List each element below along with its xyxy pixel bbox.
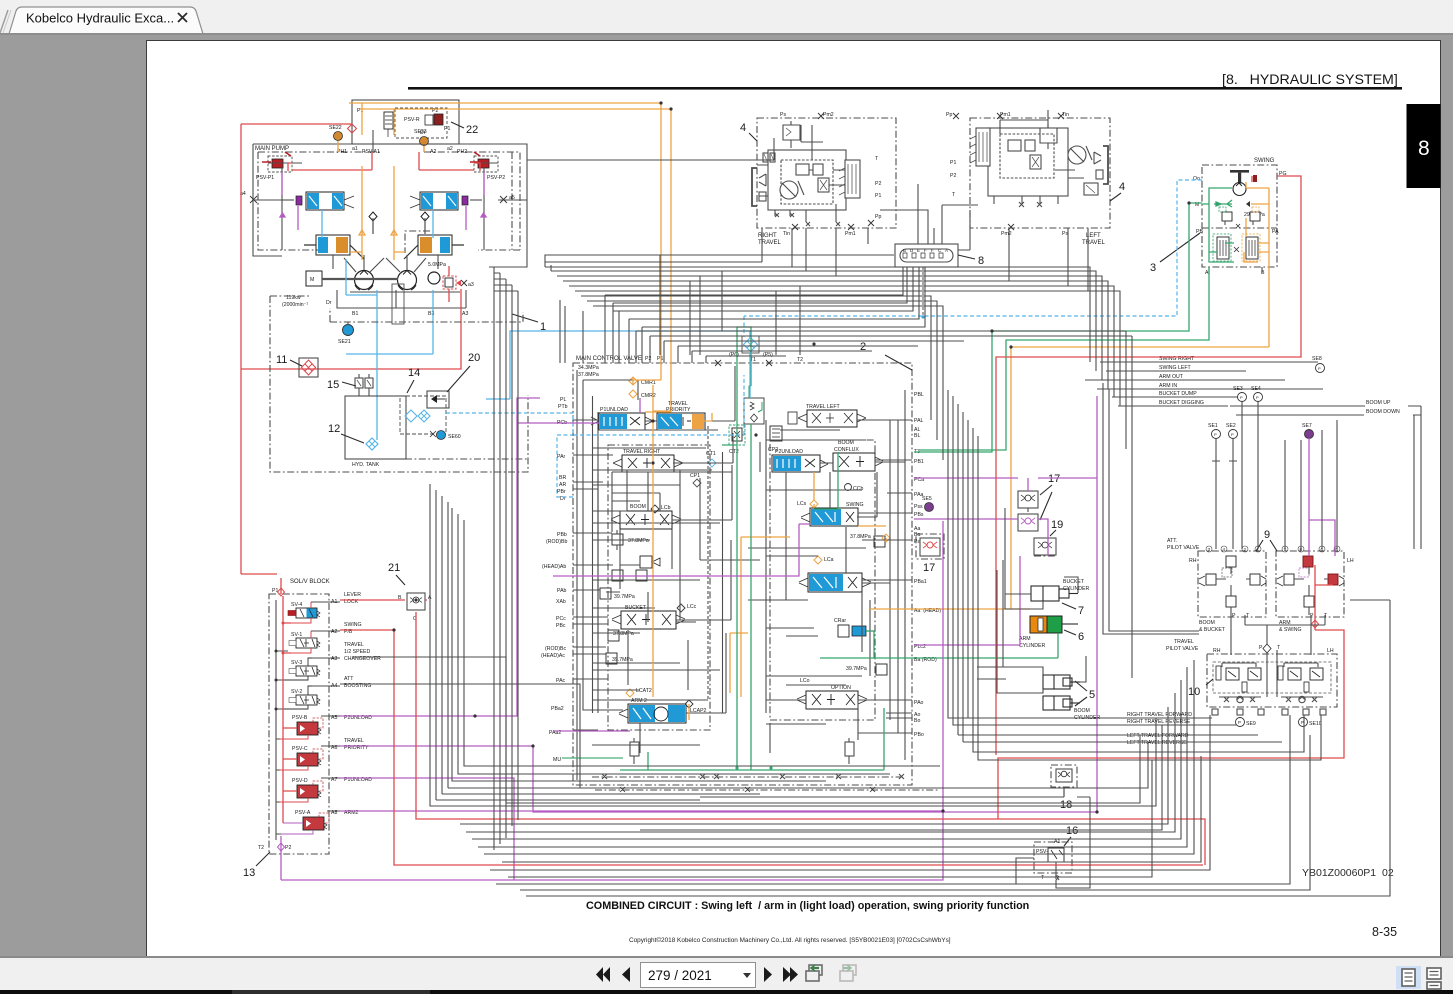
wire red att LH loop: [998, 565, 1344, 819]
svg-text:a2: a2: [447, 146, 453, 152]
svg-text:37.8MPa: 37.8MPa: [613, 631, 634, 637]
boom cylinders 5: [1043, 675, 1100, 721]
svg-text:MU: MU: [553, 757, 561, 763]
MCV outer box: [573, 356, 912, 785]
svg-text:BOOM: BOOM: [1199, 620, 1215, 626]
svg-text:P: P: [1256, 395, 1259, 400]
continuous view button: [1427, 968, 1441, 979]
chapter tab 8: [1407, 104, 1441, 188]
svg-text:18: 18: [1060, 799, 1072, 811]
svg-text:HYD. TANK: HYD. TANK: [352, 462, 380, 468]
svg-text:P2: P2: [285, 845, 291, 851]
wire orange pilot primary: [349, 103, 661, 381]
nav forward icon (disabled): [840, 965, 856, 981]
valve PSV-A: [281, 810, 329, 834]
svg-text:SWING: SWING: [344, 622, 362, 628]
svg-text:T2: T2: [797, 357, 803, 363]
svg-text:Pm2: Pm2: [1001, 231, 1012, 237]
spool SWING: [797, 500, 864, 526]
svg-text:AR: AR: [559, 482, 566, 488]
svg-text:SE23: SE23: [414, 129, 427, 135]
nav back icon: [806, 965, 822, 981]
relief 39.7MPa bucket: [606, 653, 633, 664]
svg-text:F: F: [924, 248, 927, 253]
red diamond P1 junction: [348, 124, 357, 133]
check valves pump center: [369, 212, 429, 234]
svg-text:PL: PL: [560, 397, 566, 403]
svg-text:LCc: LCc: [687, 604, 697, 610]
svg-text:21: 21: [388, 562, 400, 574]
svg-text:A3: A3: [462, 311, 468, 317]
svg-text:BOOM: BOOM: [1074, 708, 1090, 714]
wire gray left verticals to bottom: [430, 484, 820, 806]
svg-text:(2000min⁻¹: (2000min⁻¹: [282, 302, 308, 308]
signal label SWING RIGHT: [1100, 356, 1318, 362]
valve PSV-P2: [470, 152, 505, 181]
svg-text:P1UNLOAD: P1UNLOAD: [600, 407, 628, 413]
label 21: [388, 562, 405, 585]
svg-text:SE4: SE4: [1251, 386, 1261, 392]
svg-text:MAIN CONTROL VALVE: MAIN CONTROL VALVE: [576, 356, 642, 362]
svg-text:RIGHT TRAVEL FORWARD: RIGHT TRAVEL FORWARD: [1127, 712, 1192, 718]
svg-text:P: P: [1214, 432, 1217, 437]
svg-text:LEFT TRAVEL FORWARD: LEFT TRAVEL FORWARD: [1127, 733, 1189, 739]
nav prev button: [622, 967, 630, 982]
left travel internals: [970, 110, 1108, 207]
label 8: [958, 255, 984, 267]
svg-text:BL: BL: [914, 433, 920, 439]
sol/v block box: [248, 579, 330, 874]
svg-text:RIGHT: RIGHT: [758, 233, 777, 239]
travel pilot valve box 10: [1166, 639, 1337, 707]
swing internal green lines: [1202, 188, 1234, 262]
spool ARM2: [619, 688, 707, 723]
valve SV-3: [276, 658, 320, 680]
svg-text:RH: RH: [1189, 558, 1197, 564]
svg-text:(HEAD)Ac: (HEAD)Ac: [541, 653, 565, 659]
svg-text:a5: a5: [509, 195, 515, 201]
svg-text:PAL: PAL: [914, 418, 924, 424]
svg-text:34.3MPa: 34.3MPa: [578, 365, 599, 371]
wire gray density bundle extra top: [581, 296, 1132, 678]
wire black A3 travel changeover: [340, 657, 580, 803]
svg-text:PSV-D: PSV-D: [292, 778, 308, 784]
svg-text:PB1: PB1: [914, 459, 924, 465]
bottom toolbar: [0, 956, 1453, 958]
motor box M: [306, 271, 322, 286]
svg-text:PBo: PBo: [914, 732, 924, 738]
wire magenta PCa line: [914, 478, 1097, 491]
sensor SE5: [922, 496, 934, 512]
label 19: [1050, 519, 1063, 536]
sensor SE60: [430, 431, 461, 441]
regulator valve left (proportional): [282, 192, 354, 210]
drive shaft: [322, 278, 398, 280]
svg-text:LCo: LCo: [800, 678, 810, 684]
svg-text:11: 11: [276, 354, 287, 366]
travel PV check row: [1219, 696, 1323, 702]
pump circle 2: [398, 271, 417, 291]
wire gray links box8 to MCV top ports: [660, 255, 800, 355]
svg-text:5.0MPa: 5.0MPa: [428, 262, 446, 268]
pump bottom frame: [337, 284, 468, 324]
swing internal red stub: [1251, 176, 1253, 182]
svg-text:LCa: LCa: [824, 557, 834, 563]
svg-text:SE5: SE5: [922, 496, 932, 502]
MCV bottom dash-dot tank rail: [592, 776, 905, 778]
svg-text:[8. HYDRAULIC SYSTEM]: [8. HYDRAULIC SYSTEM]: [1222, 72, 1398, 88]
svg-text:13: 13: [243, 867, 255, 879]
spool BOOM: [611, 504, 681, 529]
right travel port labels: [780, 112, 881, 237]
MCV inner sub-boxes: [583, 380, 905, 760]
ATT PV circled numbers: [1206, 546, 1340, 552]
svg-text:COMBINED CIRCUIT : Swing left: COMBINED CIRCUIT : Swing left / arm in (…: [586, 900, 1029, 912]
swing makeup valves: [1213, 224, 1260, 261]
pump lower dash-dot frame: [330, 308, 523, 322]
svg-text:XAb: XAb: [556, 599, 566, 605]
sensor SE23: [414, 129, 429, 146]
svg-text:Pm1: Pm1: [845, 231, 856, 237]
svg-text:PBs: PBs: [914, 512, 924, 518]
wire orange pilot secondary: [360, 109, 671, 412]
bucket cylinder caption text: [1064, 573, 1065, 579]
svg-text:PB: PB: [1196, 229, 1203, 235]
wire magenta A6 TRAVEL PRIORITY: [340, 396, 1097, 812]
svg-text:SWING: SWING: [1254, 158, 1275, 164]
wire green arm rod line: [820, 631, 1058, 658]
svg-text:39.7MPa: 39.7MPa: [614, 594, 635, 600]
valve PSV-P1: [256, 152, 292, 181]
tab close button: [178, 13, 187, 22]
nav next button: [764, 967, 772, 982]
servo cylinder left: [304, 235, 364, 259]
MCV dense web right half: [748, 420, 898, 733]
sol/v internal rails: [275, 600, 289, 840]
svg-text:SE8: SE8: [1312, 356, 1322, 362]
label 15: [327, 379, 356, 391]
svg-text:PCc: PCc: [556, 616, 566, 622]
regulator valve right (proportional): [410, 192, 482, 210]
wire magenta A7 P1UNLOAD: [340, 778, 514, 880]
sensor SE10: [1299, 718, 1322, 728]
wire pump internals gray: [253, 130, 527, 272]
svg-text:YB01Z00060P1 02: YB01Z00060P1 02: [1302, 867, 1394, 879]
svg-text:22: 22: [466, 124, 478, 136]
relief 39.7MPa boom: [594, 588, 635, 602]
svg-text:LH: LH: [1327, 648, 1334, 654]
svg-text:TRAVEL: TRAVEL: [1082, 240, 1106, 246]
label 22: [451, 122, 478, 136]
label 13: [243, 852, 270, 879]
cyan pilot check CT2 CP2: [690, 425, 782, 487]
travel signal labels: [1127, 712, 1192, 746]
right travel internals: [752, 121, 860, 226]
svg-text:CYLINDER: CYLINDER: [1063, 586, 1089, 592]
signal label ARM OUT: [1085, 374, 1285, 380]
svg-text:ARM IN: ARM IN: [1159, 383, 1177, 389]
svg-text:P1: P1: [444, 126, 450, 132]
svg-text:P2UNLOAD: P2UNLOAD: [775, 449, 803, 455]
svg-text:39.7MPa: 39.7MPa: [612, 657, 633, 663]
svg-text:A8: A8: [331, 810, 337, 816]
svg-text:4: 4: [1223, 547, 1226, 552]
MCV top port labels: [645, 352, 803, 363]
wire magenta PSV-A tail: [281, 812, 943, 880]
svg-text:CCb: CCb: [853, 486, 863, 492]
taskbar strip: [0, 990, 1453, 994]
svg-text:Pss: Pss: [914, 504, 923, 510]
label 17 right pair: [1040, 473, 1060, 520]
signal label BUCKET DUMP: [1112, 391, 1242, 397]
svg-text:a1: a1: [352, 146, 358, 152]
svg-text:LCAT2: LCAT2: [636, 688, 652, 694]
svg-text:5: 5: [1089, 689, 1095, 701]
label 20: [447, 352, 480, 392]
wire magenta A5 P2UNLOAD: [340, 398, 599, 716]
wire gray dashed box8 drain: [922, 267, 924, 316]
svg-text:P: P: [1240, 395, 1243, 400]
svg-text:PAr: PAr: [557, 454, 566, 460]
svg-text:PAb: PAb: [557, 588, 567, 594]
svg-text:LEVER: LEVER: [344, 592, 361, 598]
svg-text:17: 17: [1048, 473, 1060, 485]
svg-text:P1: P1: [272, 588, 278, 594]
svg-text:TRAVEL: TRAVEL: [344, 642, 364, 648]
valve PSV-B: [280, 715, 323, 739]
port markers P6 P5: [715, 360, 772, 366]
ATT pilot valve box 9: [1167, 538, 1354, 633]
wire red swing PB A2: [340, 630, 1203, 865]
travel PV bottom ports: [1212, 709, 1326, 715]
svg-text:SE3: SE3: [1233, 386, 1243, 392]
svg-text:ARM OUT: ARM OUT: [1159, 374, 1184, 380]
label 14: [407, 367, 420, 393]
port labels A1-A8: [331, 599, 337, 816]
spool OPTION: [797, 678, 867, 709]
svg-text:RH: RH: [1213, 648, 1221, 654]
sol/v A-port lines: [311, 602, 340, 811]
ATT PV RH internals: [1199, 556, 1266, 615]
swing motor box: [1193, 158, 1287, 276]
svg-text:M: M: [310, 277, 314, 283]
hydraulic tank box 12: [345, 396, 406, 468]
check valve 20: [427, 391, 449, 408]
wire orange CMR drop: [633, 377, 671, 697]
left travel port markers: [953, 113, 1064, 230]
sensor SE9: [1236, 718, 1256, 728]
pump circle 1: [355, 271, 374, 291]
tank line filter diamond: [742, 336, 759, 353]
svg-text:P: P: [1318, 366, 1321, 371]
svg-text:8: 8: [1418, 137, 1430, 160]
wire red sol internal rail: [283, 596, 297, 823]
valve PSV-C: [280, 746, 323, 770]
svg-text:MAIN PUMP: MAIN PUMP: [255, 146, 289, 152]
gear pump circle: [428, 272, 440, 284]
svg-text:PSV-P1: PSV-P1: [256, 175, 274, 181]
svg-text:PSV-A: PSV-A: [295, 810, 311, 816]
right travel port markers: [792, 113, 874, 230]
svg-text:OPTION: OPTION: [831, 685, 851, 691]
CMR1 CMR2 orange check diamonds: [629, 377, 656, 399]
svg-text:SV-3: SV-3: [291, 660, 302, 666]
svg-text:T2: T2: [258, 845, 264, 851]
pilot pump box 22: [352, 100, 459, 144]
svg-text:a3: a3: [468, 282, 474, 288]
MCV main relief box: [744, 386, 764, 424]
wire gray nest verticals left of MCV: [560, 300, 583, 363]
svg-text:PH2: PH2: [457, 149, 467, 155]
svg-text:19: 19: [1051, 519, 1063, 531]
svg-text:TRAVEL LEFT: TRAVEL LEFT: [806, 404, 841, 410]
svg-text:SE7: SE7: [1302, 423, 1312, 429]
svg-text:PTb: PTb: [558, 404, 568, 410]
MCV internal gray connection web: [573, 366, 912, 733]
shuttle box 17b right (magenta): [1018, 514, 1038, 531]
wire gray mid verticals right of MCV: [948, 383, 1321, 760]
svg-text:SWING LEFT: SWING LEFT: [1159, 365, 1192, 371]
signal label BUCKET DIGGING: [1118, 400, 1228, 406]
svg-text:BUCKET DIGGING: BUCKET DIGGING: [1159, 400, 1204, 406]
relief arm rod 39.7: [846, 664, 887, 675]
valve SV-2: [276, 686, 320, 709]
svg-text:Tin: Tin: [783, 231, 790, 237]
svg-text:(ROD)Bb: (ROD)Bb: [546, 539, 567, 545]
svg-text:A1: A1: [331, 599, 337, 605]
svg-text:Pp: Pp: [946, 112, 952, 118]
spool P2UNLOAD: [772, 449, 828, 472]
MCV left port labels: [541, 397, 568, 763]
wire cyan solid T1 return: [486, 331, 750, 399]
spool TRAVEL RIGHT: [613, 449, 683, 472]
svg-text:B1: B1: [352, 311, 358, 317]
svg-text:CP1: CP1: [690, 473, 700, 479]
swing relief valves: [1219, 207, 1260, 225]
sensor SE3 SE4: [1233, 386, 1263, 420]
svg-text:SE9: SE9: [1246, 721, 1256, 727]
wire magenta PLc2 line: [914, 556, 1020, 645]
wire gray bundle pump right nest: [492, 138, 774, 850]
svg-text:A7: A7: [331, 777, 337, 783]
arm cylinder 6: [1019, 616, 1084, 649]
MCV left double border: [576, 370, 578, 780]
svg-text:PBb: PBb: [557, 532, 567, 538]
svg-text:PBL: PBL: [914, 392, 924, 398]
wire a4 a5 markers: [240, 191, 515, 203]
wire magenta A8 ARM2: [340, 521, 943, 811]
svg-text:Copyright©2018 Kobelco Constru: Copyright©2018 Kobelco Construction Mach…: [629, 936, 951, 944]
svg-text:BUCKET: BUCKET: [1063, 579, 1085, 585]
svg-text:P: P: [1259, 645, 1263, 651]
svg-text:SV-2: SV-2: [291, 689, 302, 695]
svg-text:P: P: [1232, 613, 1236, 619]
svg-text:BOOM DOWN: BOOM DOWN: [1366, 409, 1400, 415]
svg-text:LH: LH: [1347, 558, 1354, 564]
wire red swing PG: [996, 176, 1301, 755]
wire gray bundle top (pump to signals): [545, 255, 1124, 406]
relief arm: [850, 534, 890, 547]
svg-text:2: 2: [1244, 547, 1247, 552]
svg-text:Pm2: Pm2: [823, 112, 834, 118]
svg-text:PSV-P2: PSV-P2: [487, 175, 505, 181]
sensor SE7: [1302, 423, 1314, 439]
svg-text:P: P: [1238, 720, 1241, 725]
filter box 11: [299, 358, 318, 377]
wire green MU line: [562, 757, 623, 759]
sensor SE1 SE2: [1208, 423, 1238, 461]
connector block 8: [895, 244, 958, 267]
breather filters 15: [355, 374, 373, 396]
svg-text:LEFT TRAVEL REVERSE: LEFT TRAVEL REVERSE: [1127, 740, 1187, 746]
wire magenta 17b line: [914, 519, 1048, 556]
svg-text:A5: A5: [331, 715, 337, 721]
CRar valve arm: [834, 618, 874, 637]
swing internal orange lines: [1244, 182, 1269, 347]
spool BUCKET: [612, 604, 697, 629]
spool BOOM CONFLUX: [833, 440, 883, 471]
label 11: [276, 354, 302, 366]
sensor SE8: [1312, 356, 1325, 373]
wire cyan tank return dashed: [446, 375, 744, 435]
single page view button (active): [1396, 966, 1421, 989]
wire magenta MCV feeds: [553, 398, 810, 731]
svg-text:SE22: SE22: [329, 125, 342, 131]
svg-text:ARM 2: ARM 2: [631, 698, 647, 704]
svg-text:P1: P1: [657, 356, 663, 362]
relief 37.8MPa bucket: [608, 630, 634, 641]
servo cylinder right: [404, 235, 464, 259]
right travel motor box 4: [757, 118, 896, 246]
svg-text:SV-1: SV-1: [291, 632, 302, 638]
valve PSV-5 box 16: [1034, 825, 1078, 881]
svg-text:LCb: LCb: [661, 505, 671, 511]
spool TRAVEL PRIORITY: [657, 401, 705, 430]
svg-text:Ps: Ps: [780, 112, 786, 118]
svg-text:PSV-B: PSV-B: [292, 715, 308, 721]
svg-text:37.8MPa: 37.8MPa: [850, 534, 871, 540]
svg-text:279 / 2021: 279 / 2021: [648, 968, 712, 983]
svg-text:PBr: PBr: [557, 489, 566, 495]
label 3: [1150, 233, 1200, 274]
svg-text:ATT: ATT: [344, 676, 354, 682]
background tab stub left: [0, 10, 8, 33]
svg-text:PSV A1: PSV A1: [362, 149, 380, 155]
tab bar bottom edge: [0, 33, 1453, 35]
svg-text:E: E: [917, 248, 920, 253]
svg-text:PSV-C: PSV-C: [292, 746, 308, 752]
svg-text:SE2: SE2: [1226, 423, 1236, 429]
svg-text:P2: P2: [950, 173, 956, 179]
svg-text:(P5): (P5): [763, 352, 773, 358]
relief valve boom head: [612, 556, 660, 581]
svg-text:PBa2: PBa2: [551, 706, 564, 712]
wire green MCV tank U: [620, 327, 884, 770]
svg-text:CRar: CRar: [834, 618, 846, 624]
svg-text:A1: A1: [1054, 839, 1060, 845]
wire red att diamond: [1312, 620, 1319, 628]
wire gray travel link verticals: [545, 184, 1088, 291]
svg-text:ATT.: ATT.: [1167, 538, 1177, 544]
header rule: [408, 87, 1402, 90]
wire red lever lock A1: [340, 600, 1205, 865]
svg-text:PAc: PAc: [556, 678, 566, 684]
svg-text:A: A: [945, 248, 948, 253]
svg-text:Tin: Tin: [1062, 112, 1069, 118]
relief valve boom rod 37.8MPa: [612, 530, 649, 550]
svg-text:16: 16: [1066, 825, 1078, 837]
wire gray att pv drops: [1216, 420, 1337, 697]
